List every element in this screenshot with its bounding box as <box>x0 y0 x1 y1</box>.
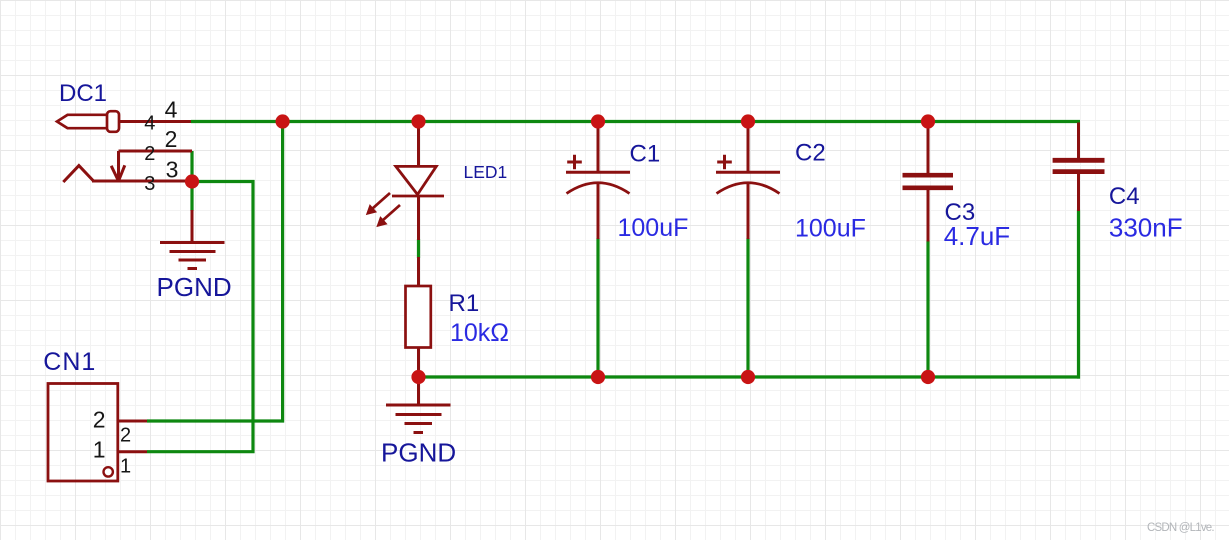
DC1 pin 3 lead <box>92 180 192 183</box>
LED1 light arrow 1 shaft <box>373 193 391 209</box>
svg-text:100uF: 100uF <box>795 214 866 242</box>
C4 plate1 <box>1053 158 1105 163</box>
wire: DC1 pin3 node to CN1 pin1 <box>147 182 253 452</box>
ground PGND1 bar3 <box>179 259 207 262</box>
junction dot top rail at C1 <box>591 114 605 128</box>
junction dot bottom rail at C2 <box>741 370 755 384</box>
capacitor C1 top lead <box>597 122 600 172</box>
LED1 light arrow 2 shaft <box>383 205 401 221</box>
C3 plate2 <box>903 185 954 190</box>
wire: PGND1 stem green part <box>190 182 193 212</box>
wire: top V+ rail <box>191 120 1080 123</box>
ground PGND2 bar1 <box>386 404 451 407</box>
svg-text:3: 3 <box>144 173 155 195</box>
junction dot top rail at CN1 riser <box>276 114 290 128</box>
connector DC1 plug cap <box>107 111 119 132</box>
svg-text:330nF: 330nF <box>1109 212 1183 242</box>
capacitor C3 top lead <box>927 122 930 174</box>
resistor R1 body <box>406 286 431 348</box>
LED1 bottom lead <box>417 196 420 240</box>
C1 bottom lead <box>597 183 600 239</box>
svg-text:2: 2 <box>93 407 106 433</box>
junction dot bottom rail at C1 <box>591 370 605 384</box>
junction dot top rail at LED1 <box>411 114 425 128</box>
wire: LED1 cathode to R1 <box>417 239 420 258</box>
DC1 pin 2 lead <box>119 150 193 153</box>
wire: CN1 pin2 to top rail <box>147 122 283 422</box>
svg-text:R1: R1 <box>449 290 480 317</box>
LED1 top lead <box>417 122 420 167</box>
ground PGND2 bar2 <box>396 413 442 416</box>
DC1 switch arrow barb right <box>119 165 125 181</box>
ground PGND2 bar4 <box>414 431 424 434</box>
svg-text:CSDN @L1ve.: CSDN @L1ve. <box>1147 522 1214 534</box>
capacitor C4 top lead <box>1077 123 1080 159</box>
svg-text:C4: C4 <box>1109 183 1140 210</box>
svg-text:3: 3 <box>166 157 179 183</box>
CN1 pin 1 stub <box>118 450 147 453</box>
LED1 cathode bar <box>392 195 444 198</box>
junction dot bottom rail at R1 <box>411 370 425 384</box>
C2 bottom plate arc <box>717 183 780 194</box>
svg-text:100uF: 100uF <box>618 214 689 242</box>
C3 bottom lead <box>927 190 930 242</box>
junction dot top rail at C2 <box>741 114 755 128</box>
junction dot bottom rail at C3 <box>921 370 935 384</box>
junction dot DC1 pin3 node <box>185 174 199 188</box>
DC1 pin 4 lead <box>119 120 191 123</box>
C1 top plate <box>566 171 630 174</box>
capacitor C2 top lead <box>747 122 750 172</box>
svg-text:C2: C2 <box>795 140 826 167</box>
ground PGND2 stem <box>417 377 420 405</box>
CN1 pin1 indicator circle <box>104 467 113 476</box>
svg-text:PGND: PGND <box>157 272 232 302</box>
C4 bottom lead <box>1077 174 1080 211</box>
LED1 light arrow 1 head <box>367 206 376 215</box>
C2 top plate <box>716 171 780 174</box>
svg-text:DC1: DC1 <box>59 80 107 107</box>
wire: C1 bottom <box>596 238 599 377</box>
svg-text:2: 2 <box>144 143 155 165</box>
svg-text:4: 4 <box>165 97 178 123</box>
C1 bottom plate arc <box>567 183 630 194</box>
svg-text:4: 4 <box>144 113 155 135</box>
C2 bottom lead <box>747 183 750 239</box>
svg-text:10kΩ: 10kΩ <box>450 319 509 347</box>
svg-text:LED1: LED1 <box>464 162 508 182</box>
DC1 pin 3 sleeve zigzag <box>63 166 93 182</box>
svg-text:1: 1 <box>93 437 106 463</box>
DC1 switch arrow barb left <box>111 166 118 181</box>
wire: C4 bottom drop <box>1077 210 1080 379</box>
ground PGND1 bar4 <box>188 267 198 270</box>
svg-text:2: 2 <box>165 126 178 152</box>
svg-text:2: 2 <box>120 425 131 447</box>
R1 top lead <box>417 257 420 287</box>
wire: C2 bottom <box>746 238 749 377</box>
CN1 pin 2 stub <box>118 420 147 423</box>
C1 plus sign <box>567 155 582 170</box>
wire: DC1 pin2 drop to pin3 node <box>190 151 193 182</box>
svg-text:CN1: CN1 <box>43 348 96 376</box>
C4 plate2 <box>1053 169 1105 174</box>
wire: C3 bottom <box>926 241 929 378</box>
ground PGND1 stem <box>191 210 194 243</box>
C2 plus sign <box>717 155 732 170</box>
svg-text:4.7uF: 4.7uF <box>944 221 1011 251</box>
svg-text:C1: C1 <box>630 140 661 167</box>
C3 plate1 <box>903 173 954 178</box>
ground PGND1 bar2 <box>170 250 216 253</box>
connector DC1 plug body <box>57 115 109 128</box>
connector CN1 box <box>48 384 118 482</box>
wire: bottom rail <box>417 375 1080 378</box>
LED1 light arrow 2 head <box>378 218 387 227</box>
junction dot top rail at C3 <box>921 114 935 128</box>
svg-text:PGND: PGND <box>381 437 456 467</box>
ground PGND1 bar1 <box>160 241 225 244</box>
LED1 triangle <box>396 166 437 194</box>
ground PGND2 bar3 <box>405 422 433 425</box>
DC1 switch arrow stem <box>117 151 120 180</box>
R1 bottom lead <box>417 348 420 378</box>
svg-text:1: 1 <box>120 456 131 478</box>
